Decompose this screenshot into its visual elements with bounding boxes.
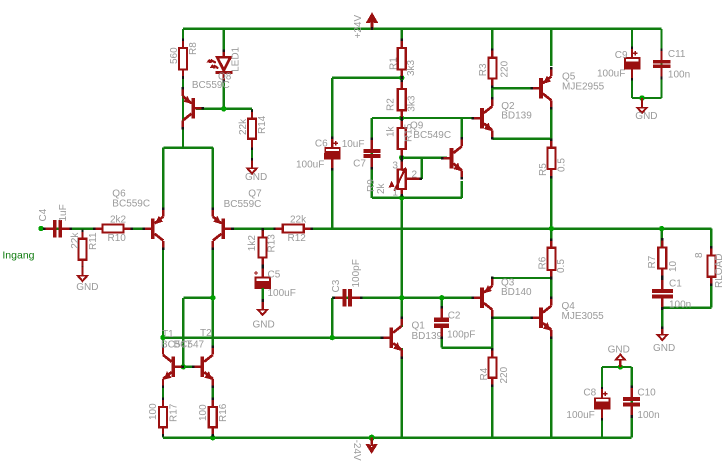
svg-text:22k: 22k: [238, 118, 249, 135]
wire trimmer wiper rise: [421, 158, 423, 179]
ground R11: [76, 275, 99, 293]
capacitor C9: [597, 47, 641, 81]
node R9 bottom junction: [399, 195, 404, 200]
svg-text:GND: GND: [253, 320, 275, 331]
svg-text:0.5: 0.5: [557, 158, 568, 172]
wire C9 column: [631, 29, 633, 98]
svg-text:C4: C4: [38, 208, 49, 221]
node C8-C10 GND: [618, 364, 623, 369]
svg-text:220: 220: [500, 60, 511, 77]
svg-text:GND: GND: [245, 172, 267, 183]
node R1-R2 junction: [399, 75, 404, 80]
svg-text:1k2: 1k2: [247, 235, 258, 252]
svg-text:100uF: 100uF: [566, 410, 594, 421]
svg-text:R1: R1: [389, 57, 400, 70]
ground C8-C10: [608, 345, 630, 361]
wire Q3 collector rise: [491, 278, 493, 282]
svg-text:T2: T2: [200, 328, 212, 339]
LED LED1: [206, 46, 241, 82]
wire output to R7: [661, 229, 663, 248]
svg-text:100n: 100n: [669, 300, 691, 311]
node R16 / -24V rail: [210, 435, 215, 440]
wire Q6 emitter: [162, 148, 164, 212]
wire C11 column: [660, 29, 662, 98]
svg-text:R16: R16: [218, 403, 229, 422]
wire C1 to GND: [661, 299, 663, 330]
node R15-R9 junction: [399, 155, 404, 160]
svg-text:C5: C5: [268, 270, 281, 281]
node output / R7: [659, 226, 664, 231]
svg-text:100n: 100n: [637, 410, 659, 421]
wire vbe top: [372, 117, 475, 119]
gnd stem C8-C10: [619, 361, 621, 368]
svg-text:BC547: BC547: [174, 339, 205, 350]
wire T2 emitter to R16: [212, 382, 214, 438]
resistor R8: [169, 39, 199, 79]
gnd link C1: [661, 327, 663, 330]
svg-text:R12: R12: [288, 233, 307, 244]
wire T1-T2 base link: [175, 366, 199, 368]
svg-text:R7: R7: [647, 255, 658, 268]
wire Q1 base row: [163, 336, 384, 338]
wire RLOAD bottom: [710, 277, 712, 308]
ground C1: [653, 334, 675, 354]
resistor R7: [647, 238, 679, 278]
svg-text:R10: R10: [108, 233, 127, 244]
node R2-R15 junction: [399, 115, 404, 120]
wire C2 column: [441, 298, 443, 314]
node input stub: [38, 226, 43, 231]
svg-text:R5: R5: [538, 163, 549, 176]
node T1 collector / Q1 base: [160, 335, 165, 340]
wire Q6-Q7 emitter rail: [163, 146, 213, 148]
resistor R16: [198, 398, 229, 437]
svg-text:100: 100: [148, 403, 159, 420]
node T1-T2 base junction: [181, 364, 186, 369]
svg-text:1uF: 1uF: [58, 204, 69, 221]
wire C7 column: [371, 118, 373, 198]
wire R3 column: [491, 29, 493, 89]
gnd for R11: [81, 267, 83, 275]
node output / R5-R6: [549, 226, 554, 231]
svg-text:22k: 22k: [70, 232, 81, 249]
wire T1 emitter to R17: [162, 382, 164, 438]
svg-text:100: 100: [198, 404, 209, 421]
ground C9-C11: [635, 107, 657, 122]
svg-text:BD140: BD140: [501, 287, 532, 298]
svg-text:C7: C7: [353, 159, 366, 170]
wire Q8 base to R14: [196, 108, 252, 110]
wire R8 column: [182, 29, 184, 148]
ground R14: [245, 168, 267, 183]
svg-text:BC549C: BC549C: [413, 130, 451, 141]
svg-text:+24V: +24V: [353, 15, 364, 39]
svg-text:100uF: 100uF: [296, 160, 324, 171]
capacitor C4: [38, 204, 72, 237]
wire Q6 collector drop: [162, 249, 164, 348]
svg-text:100pF: 100pF: [351, 259, 362, 287]
wire Q4 emitter drop: [550, 336, 552, 438]
wire vbe bottom: [372, 197, 462, 199]
resistor R11: [70, 229, 99, 269]
svg-text:1k: 1k: [386, 125, 397, 137]
svg-text:2k2: 2k2: [110, 215, 127, 226]
wire Q7 collector drop: [212, 248, 214, 346]
gnd stem C9-C11: [641, 98, 643, 107]
-24V supply symbol: [351, 435, 378, 461]
svg-text:3k3: 3k3: [407, 95, 418, 112]
svg-text:10: 10: [668, 260, 679, 272]
wire Q7 emitter: [212, 148, 214, 212]
wire Q9 emitter drop: [461, 181, 463, 198]
capacitor C2: [434, 306, 475, 340]
svg-text:C3: C3: [331, 279, 342, 292]
wire R11 drop: [81, 229, 83, 270]
resistor R3: [478, 48, 510, 88]
svg-text:C1: C1: [669, 279, 682, 290]
svg-text:GND: GND: [635, 111, 657, 122]
resistor R14: [238, 109, 268, 148]
svg-text:BC559C: BC559C: [224, 199, 262, 210]
svg-text:R13: R13: [267, 234, 278, 253]
svg-text:RLOAD: RLOAD: [714, 254, 725, 288]
gnd link R14: [251, 139, 253, 148]
wire input row: [41, 227, 148, 229]
svg-text:100uF: 100uF: [268, 288, 296, 299]
svg-text:560: 560: [169, 47, 180, 64]
svg-text:2k: 2k: [376, 182, 387, 194]
wire Q9 collector rise: [461, 118, 463, 140]
svg-text:C11: C11: [668, 49, 686, 60]
node Q1 collector / C3: [399, 295, 404, 300]
svg-text:R2: R2: [386, 98, 397, 111]
wire RLOAD return: [662, 307, 711, 309]
svg-text:220: 220: [499, 366, 510, 383]
wire R7-C1 link: [661, 269, 663, 289]
resistor R6: [538, 238, 568, 279]
svg-text:100pF: 100pF: [447, 330, 475, 341]
node C9-C11 GND: [639, 95, 644, 100]
wire RLOAD drop: [710, 229, 712, 256]
svg-text:R11: R11: [88, 232, 99, 250]
node C2 top: [439, 295, 444, 300]
wire T2 diode drop: [182, 298, 184, 367]
capacitor C1: [652, 278, 691, 311]
resistor R4: [479, 348, 510, 387]
svg-text:-24V: -24V: [351, 440, 362, 461]
svg-text:C10: C10: [637, 387, 656, 398]
wire R13-C5 column: [261, 229, 263, 303]
wire Q7 base feedback row: [225, 227, 712, 229]
resistor RLOAD: [694, 246, 725, 288]
ground C5: [253, 309, 275, 331]
wire R14 drop: [251, 109, 253, 163]
gnd link C5: [261, 288, 263, 303]
svg-text:8: 8: [694, 252, 705, 258]
svg-text:R4: R4: [479, 367, 490, 380]
wire C8-C10 top link: [602, 366, 632, 368]
svg-text:R17: R17: [168, 403, 179, 422]
svg-text:MJE3055: MJE3055: [562, 311, 605, 322]
resistor R10: [93, 215, 133, 245]
svg-text:2: 2: [412, 170, 418, 181]
svg-text:MJE2955: MJE2955: [562, 81, 605, 92]
svg-text:Q7: Q7: [248, 189, 262, 200]
resistor R15: [386, 119, 415, 159]
wire Q5 emitter rise: [550, 29, 552, 66]
svg-text:R3: R3: [478, 63, 489, 76]
wire R6 bottom to node: [550, 270, 552, 278]
svg-text:100n: 100n: [668, 70, 690, 81]
node C3 / Q1 base wire: [330, 335, 335, 340]
svg-text:BD139: BD139: [412, 331, 443, 342]
wire Q2 collector rise: [491, 88, 493, 98]
resistor R1: [389, 39, 418, 79]
svg-text:3: 3: [392, 161, 398, 172]
wire R5 top link: [550, 139, 552, 148]
+24V supply symbol: [353, 12, 378, 38]
wire C2 bottom drop: [441, 329, 443, 348]
wire -24V rail: [163, 437, 632, 439]
svg-text:GND: GND: [76, 282, 98, 293]
svg-text:1: 1: [392, 187, 398, 198]
wire Q3 emitter drop / R4 column: [491, 316, 493, 438]
wire Q4 collector column: [550, 278, 552, 299]
svg-text:C6: C6: [315, 138, 328, 149]
node Q7 collector / T2: [210, 295, 215, 300]
wire R1-R2 column upper: [401, 29, 403, 327]
capacitor C7: [363, 137, 380, 169]
capacitor C10: [623, 385, 659, 421]
svg-text:3k3: 3k3: [406, 59, 417, 76]
svg-text:C2: C2: [448, 311, 461, 322]
svg-text:BC559C: BC559C: [192, 80, 230, 91]
svg-text:GND: GND: [653, 343, 675, 354]
capacitor C8: [566, 387, 610, 421]
wire R3 to Q5 base: [492, 87, 534, 89]
svg-text:R8: R8: [188, 42, 199, 55]
svg-text:C8: C8: [583, 387, 596, 398]
svg-text:BD139: BD139: [501, 111, 532, 122]
svg-text:Ingang: Ingang: [2, 250, 34, 262]
svg-text:LED1: LED1: [231, 46, 242, 71]
wire Q2 emitter drop: [491, 131, 493, 139]
wire Q5-R5-R6 column: [550, 109, 552, 248]
svg-text:0.5: 0.5: [556, 259, 567, 273]
capacitor C11: [653, 49, 690, 81]
svg-text:C9: C9: [615, 50, 628, 61]
svg-text:22k: 22k: [290, 215, 307, 226]
resistor R2: [386, 80, 418, 120]
svg-text:GND: GND: [608, 345, 630, 356]
svg-text:BC559C: BC559C: [112, 199, 150, 210]
svg-text:10uF: 10uF: [342, 139, 365, 150]
svg-text:100uF: 100uF: [597, 68, 625, 79]
wire LED column: [223, 29, 225, 109]
wire C9-C11 gnd link: [632, 97, 662, 99]
resistor R17: [148, 398, 179, 437]
wire C3 branch rise: [331, 298, 333, 338]
wire C10 column: [631, 367, 633, 438]
wire Q3 emitter to Q4 base: [492, 317, 535, 319]
resistor R5: [538, 138, 568, 178]
wire Q1 emitter drop: [401, 348, 403, 438]
svg-text:R6: R6: [538, 256, 549, 269]
wire vbe wiper link: [402, 156, 447, 158]
capacitor C6: [296, 137, 366, 171]
svg-text:T1: T1: [162, 329, 174, 340]
node LED cathode junction: [221, 106, 226, 111]
wire Q3 collector row: [492, 277, 551, 279]
wire +24V top rail: [183, 28, 662, 30]
wire C2 bottom link: [442, 346, 493, 348]
wire Q3 base row: [332, 297, 475, 299]
wire R1 bottom link: [332, 77, 402, 79]
wire T2 diode link top: [183, 297, 212, 299]
resistor R12: [273, 215, 313, 245]
capacitor C5: [254, 266, 296, 300]
svg-text:R14: R14: [257, 115, 268, 134]
capacitor C3: [331, 259, 363, 306]
trimmer R9: [366, 159, 422, 199]
wire Q2 emitter to Q5 collector: [492, 137, 551, 139]
wire C8 column: [601, 367, 603, 438]
wire C6 column: [331, 78, 333, 229]
resistor R13: [247, 228, 277, 267]
